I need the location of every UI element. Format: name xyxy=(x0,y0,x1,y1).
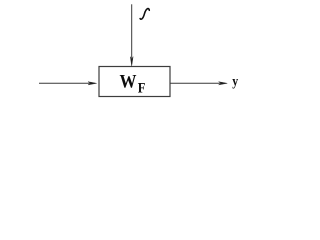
wire: output arrow shaft xyxy=(170,82,221,84)
svg-text:F: F xyxy=(138,80,146,96)
svg-text:y: y xyxy=(232,74,238,89)
input arrowhead xyxy=(88,82,97,85)
svg-text:W: W xyxy=(120,71,137,92)
wire: input arrow shaft xyxy=(39,82,91,84)
block W_F (box) xyxy=(99,67,170,97)
f arrowhead xyxy=(130,57,133,66)
wire: f arrow shaft (vertical) xyxy=(131,4,133,60)
label f (math italic) xyxy=(140,9,149,20)
output arrowhead xyxy=(219,82,228,85)
